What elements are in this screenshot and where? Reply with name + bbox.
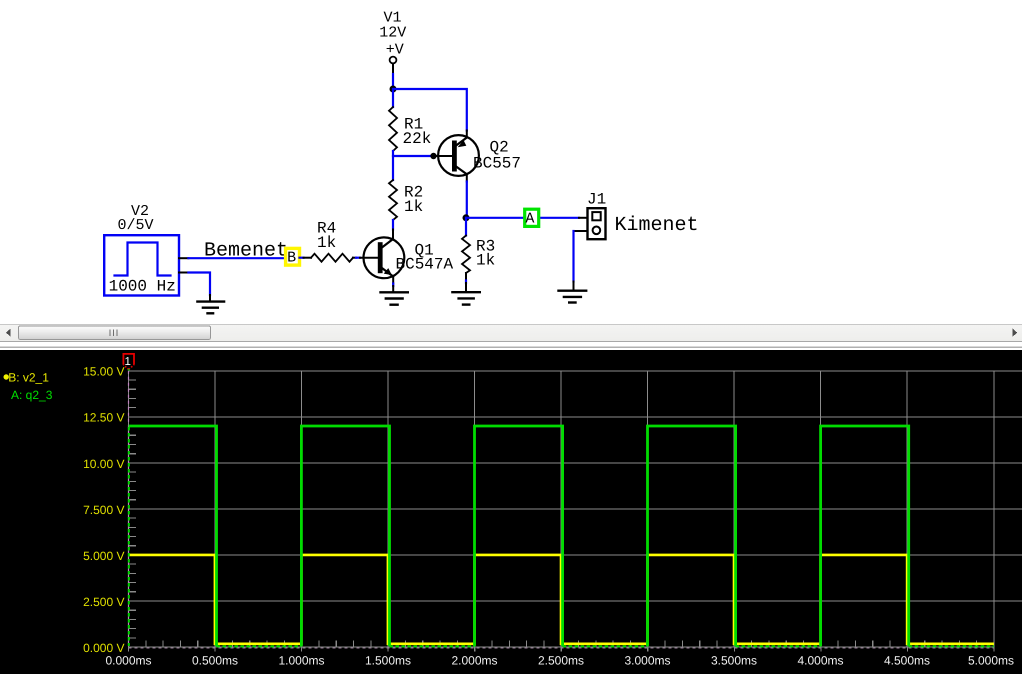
svg-text:A: A (525, 211, 534, 228)
svg-text:BC557: BC557 (473, 154, 521, 172)
svg-text:3.500ms: 3.500ms (711, 654, 757, 668)
svg-text:J1: J1 (587, 190, 606, 208)
resistor R4 (300, 257, 304, 259)
wire Q1 emitter to ground (392, 277, 394, 284)
transistor Q2 BC557 (438, 135, 479, 176)
x axis labels (105, 654, 1014, 668)
green dashed t0 edge (128, 427, 130, 646)
svg-text:10.00 V: 10.00 V (83, 457, 124, 471)
wire node down to R1 (392, 89, 394, 107)
svg-text:1k: 1k (476, 252, 495, 270)
svg-text:2.000ms: 2.000ms (451, 654, 497, 668)
resistor R1 (389, 107, 397, 151)
svg-text:1.500ms: 1.500ms (365, 654, 411, 668)
svg-text:1k: 1k (404, 198, 423, 216)
cursor 1 dashed line (128, 371, 130, 647)
trace green q2_3 low dashed segments (129, 427, 994, 646)
thumb grip (110, 330, 117, 336)
node A box (525, 209, 539, 226)
transistor Q1 BC547A (364, 237, 405, 278)
wire V1 to node (392, 74, 394, 89)
svg-text:12V: 12V (379, 25, 406, 42)
svg-text:12.50 V: 12.50 V (83, 411, 124, 425)
left arrow button (6, 329, 10, 337)
wire R2 to Q1 collector (392, 220, 394, 230)
svg-text:7.500 V: 7.500 V (83, 503, 124, 517)
ground under R3 (452, 291, 479, 293)
wire Bemenet (188, 257, 284, 259)
thumb (19, 326, 211, 340)
y axis line (128, 371, 130, 647)
wire R4 to Q1 base (353, 257, 356, 259)
wire R1 to base node (393, 151, 433, 156)
svg-text:5.000 V: 5.000 V (83, 549, 124, 563)
node junction dot A (463, 214, 470, 221)
svg-text:1.000ms: 1.000ms (278, 654, 324, 668)
svg-text:0/5V: 0/5V (117, 217, 153, 234)
svg-text:15.00 V: 15.00 V (83, 365, 124, 379)
y axis minor ticks (129, 380, 136, 638)
wire node down to R3 (465, 218, 467, 236)
y axis labels (83, 365, 124, 655)
svg-text:2.500ms: 2.500ms (538, 654, 584, 668)
ground under V2 (197, 300, 224, 302)
right arrow button (1012, 328, 1017, 337)
vertical gridlines (215, 371, 994, 647)
svg-text:1k: 1k (317, 234, 336, 252)
scrollbar (0, 324, 1022, 341)
svg-text:0.500ms: 0.500ms (192, 654, 238, 668)
wire V2 bottom to ground (188, 273, 210, 296)
wire base node down to R2 (392, 156, 394, 180)
svg-text:4.000ms: 4.000ms (797, 654, 843, 668)
svg-text:A: q2_3: A: q2_3 (11, 388, 53, 402)
resistor R3 (462, 236, 470, 274)
svg-text:1: 1 (124, 356, 130, 368)
svg-text:Kimenet: Kimenet (615, 214, 699, 237)
svg-text:Bemenet: Bemenet (204, 239, 288, 262)
trace green q2_3 high segments (129, 426, 909, 646)
resistor R2 (389, 180, 397, 220)
wire node to A box and J1 (466, 217, 524, 219)
x axis purple dashed baseline (129, 647, 995, 649)
wire node to Q2 emitter (393, 89, 467, 131)
wire R3 to ground (465, 273, 467, 281)
svg-text:2.500 V: 2.500 V (83, 595, 124, 609)
wire Q2 collector down to node A (466, 174, 468, 181)
V1 +V terminal (390, 57, 397, 64)
node junction dot top (390, 86, 397, 93)
V2 generator box (104, 235, 179, 295)
svg-text:1000 Hz: 1000 Hz (109, 278, 176, 296)
svg-text:BC547A: BC547A (396, 256, 454, 274)
svg-text:4.500ms: 4.500ms (884, 654, 930, 668)
svg-text:B: B (287, 249, 296, 266)
chart background (0, 350, 1022, 674)
node dot Q2 base (430, 153, 436, 159)
x axis minor ticks (129, 640, 994, 651)
schematic white background (0, 0, 1022, 324)
svg-text:22k: 22k (403, 130, 432, 148)
ground under J1 (559, 290, 587, 292)
V2 pulse waveform (115, 243, 171, 276)
svg-text:5.000ms: 5.000ms (968, 654, 1014, 668)
svg-text:B: v2_1: B: v2_1 (8, 370, 49, 384)
horizontal gridlines (129, 371, 1022, 647)
cursor marker 1 (123, 354, 134, 365)
wire J1 bottom pin to ground (574, 230, 588, 232)
ground under Q1 (381, 291, 408, 293)
node B box (286, 248, 300, 265)
V2 terminals (179, 257, 188, 259)
legend (3, 374, 8, 379)
svg-text:3.000ms: 3.000ms (624, 654, 670, 668)
svg-text:0.000ms: 0.000ms (105, 654, 151, 668)
splitter strip (0, 342, 1022, 350)
trace yellow v2_1 (129, 555, 994, 644)
